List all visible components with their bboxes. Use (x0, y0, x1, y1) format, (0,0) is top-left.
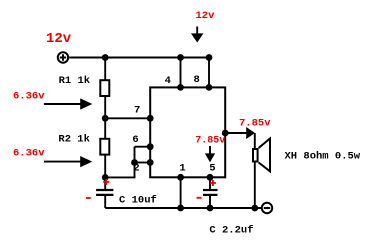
IC U1 body (150, 87, 225, 177)
node R1/R2/pin7 (102, 115, 109, 122)
svg-text:6.36v: 6.36v (13, 148, 45, 160)
svg-text:7.85v: 7.85v (195, 136, 225, 147)
node pin1 (177, 174, 184, 181)
node pin8 (206, 84, 213, 91)
svg-text:1: 1 (179, 163, 185, 175)
svg-text:4: 4 (165, 75, 171, 87)
arrow 7.85v pointing down at pin5 (205, 146, 215, 162)
arrow 6.36v upper pointing right (44, 98, 92, 109)
polarity + of C1 (red) (103, 179, 109, 185)
arrow 6.36v lower pointing right (44, 156, 92, 167)
wire pin4 (180, 58, 182, 88)
resistor R1 (100, 58, 109, 119)
svg-text:7: 7 (134, 105, 140, 117)
svg-text:5: 5 (209, 163, 215, 175)
resistor R2 (100, 118, 109, 177)
wire top rail (69, 57, 209, 59)
node pin7 at box (147, 115, 154, 122)
node C2/rail (207, 205, 214, 212)
node pin4 (177, 84, 184, 91)
node R2 / C1 junction (102, 174, 109, 181)
node top rail / pin8 (206, 54, 213, 61)
node speaker/rail (251, 205, 258, 212)
svg-text:12v: 12v (46, 31, 72, 47)
svg-text:R2 1k: R2 1k (58, 134, 90, 146)
plus terminal (58, 52, 68, 62)
svg-text:8: 8 (194, 74, 200, 86)
wire pin6/pin2 tie down to R2 bottom (105, 147, 134, 178)
node pin1/rail (177, 205, 184, 212)
arrow pin3 output pointing right (225, 127, 255, 139)
svg-text:C 2.2uf: C 2.2uf (209, 225, 253, 237)
wire pin8 (208, 58, 210, 88)
polarity - of C2 (red) (197, 197, 202, 199)
node top rail / R1 (102, 54, 109, 61)
svg-text:7.85v: 7.85v (239, 118, 271, 130)
node pin6 (147, 143, 154, 150)
wire speaker feed (254, 133, 256, 208)
wire pin7 (105, 117, 150, 119)
wire pin1 to ground rail (180, 177, 182, 208)
node pin3 output (222, 130, 229, 137)
node top rail / pin4 (177, 54, 184, 61)
arrow 12v pointing down (191, 27, 204, 43)
svg-text:12v: 12v (196, 10, 216, 22)
svg-text:6: 6 (132, 134, 138, 146)
svg-text:6.36v: 6.36v (13, 91, 45, 103)
polarity + of C2 (red) (210, 180, 216, 186)
wire pin6 (135, 146, 151, 148)
node pin5 (207, 174, 214, 181)
minus terminal (262, 203, 272, 213)
svg-text:R1 1k: R1 1k (59, 75, 91, 87)
svg-text:XH 8ohm 0.5w: XH 8ohm 0.5w (285, 151, 361, 163)
wire ground rail (105, 207, 261, 209)
node pin2 (147, 159, 154, 166)
speaker LS1 (253, 139, 270, 172)
capacitor C1 10uf (96, 177, 113, 208)
svg-text:C 10uf: C 10uf (119, 194, 157, 206)
node pin2/pin6 tie (131, 159, 138, 166)
capacitor C2 2.2uf (203, 177, 218, 208)
wire pin2 (135, 162, 151, 164)
polarity - of C1 (red) (86, 197, 91, 199)
